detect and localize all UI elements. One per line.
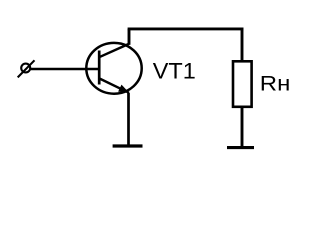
emitter diagonal [100, 79, 130, 93]
transistor base bar [98, 51, 101, 85]
svg-text:VT1: VT1 [153, 59, 196, 84]
wire collector vertical [128, 29, 131, 45]
emitter arrowhead [118, 85, 129, 93]
collector diagonal [99, 44, 129, 57]
input terminal slash [18, 60, 35, 77]
wire below resistor [241, 107, 244, 148]
wire top rail [128, 27, 244, 30]
transistor VT1 body circle [86, 43, 141, 94]
resistor Rн body [233, 61, 252, 107]
terminal bar below emitter [113, 144, 143, 147]
input terminal [21, 64, 30, 73]
wire right vertical to resistor [241, 28, 244, 62]
terminal bar below resistor [227, 146, 254, 149]
wire base lead [30, 68, 98, 71]
wire emitter vertical [127, 93, 130, 146]
svg-text:Rн: Rн [260, 73, 291, 96]
